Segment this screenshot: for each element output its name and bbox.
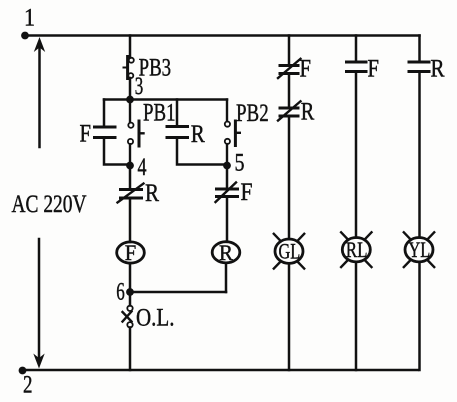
svg-text:4: 4 xyxy=(138,152,147,181)
svg-text:5: 5 xyxy=(235,148,245,177)
wire: RL branch from top rail xyxy=(355,36,358,63)
contact R (NC interlock) xyxy=(118,184,144,203)
AC 220V dimension arrow lower segment xyxy=(33,239,44,369)
wire: coil F to node 6 xyxy=(129,263,132,292)
lamp YL xyxy=(404,232,434,267)
coil R xyxy=(212,240,240,265)
contact F (NC interlock) xyxy=(216,183,238,203)
contact F (NO, RL branch) xyxy=(347,62,367,72)
wire: PB3 to node 3 xyxy=(129,78,132,100)
svg-text:F: F xyxy=(368,54,380,83)
svg-text:6: 6 xyxy=(116,277,125,306)
svg-text:GL: GL xyxy=(278,239,300,264)
svg-text:R: R xyxy=(145,178,159,207)
wire: left leg down to contact F xyxy=(103,100,106,128)
wire: GL branch contact to lamp xyxy=(288,116,291,239)
node 1 junction dot xyxy=(21,32,29,40)
svg-text:O.L.: O.L. xyxy=(136,303,175,332)
wire: node 6 bus to coil R branch xyxy=(130,291,226,294)
contact R (NO, holding contact) xyxy=(167,127,188,138)
svg-text:PB2: PB2 xyxy=(236,98,269,127)
svg-text:F: F xyxy=(125,240,137,265)
pushbutton PB1 (NO) xyxy=(128,100,144,166)
AC 220V dimension arrow upper segment xyxy=(34,37,45,147)
contact F (NC, GL branch) xyxy=(278,59,301,78)
svg-text:YL: YL xyxy=(408,237,430,262)
svg-text:F: F xyxy=(300,54,312,83)
wire: node 6 to overload contact xyxy=(129,292,132,306)
wire: lamp YL to bottom rail xyxy=(418,262,421,370)
pushbutton PB3 (NC) xyxy=(124,57,134,79)
wire: GL branch from top rail xyxy=(288,36,291,66)
pushbutton PB2 (NO) xyxy=(225,100,240,166)
wire: contact R to bottom corner to node 5 xyxy=(177,138,227,165)
contact R (NC, GL branch) xyxy=(278,101,301,120)
wire: lamp RL to bottom rail xyxy=(355,262,358,370)
node 2 junction dot xyxy=(19,367,27,375)
contact F (NO, holding contact) xyxy=(95,127,116,138)
wire: top rail (node 1 to right corner) xyxy=(25,34,420,37)
svg-text:AC 220V: AC 220V xyxy=(12,191,87,218)
svg-text:R: R xyxy=(301,97,315,126)
wire: parallel-group top bus (x 104 to 227 at y 99.5) xyxy=(104,98,227,101)
node 5 junction dot xyxy=(223,162,231,170)
wire: NC contact R to coil F xyxy=(129,198,132,242)
wire: node 4 down to NC contact R xyxy=(129,166,132,190)
wire: right-group left leg down to contact R xyxy=(176,100,179,127)
wire: NC contact F to coil R xyxy=(226,197,229,242)
wire: node 5 down to NC contact F xyxy=(226,166,229,190)
svg-text:PB3: PB3 xyxy=(139,53,172,82)
coil F xyxy=(117,240,145,265)
svg-text:PB1: PB1 xyxy=(143,98,176,127)
svg-text:R: R xyxy=(431,54,445,83)
wire: main branch from top rail to PB3 xyxy=(129,36,132,58)
node 3 junction dot xyxy=(126,96,134,104)
svg-text:1: 1 xyxy=(24,3,35,32)
wire: lamp GL to bottom rail xyxy=(288,263,291,370)
wire: bottom rail (node 2 to right) xyxy=(22,369,418,372)
svg-text:R: R xyxy=(191,119,205,148)
wire: between GL branch contacts xyxy=(288,74,291,109)
wire: YL branch from top rail corner xyxy=(418,36,421,63)
node 6 junction dot xyxy=(126,288,134,296)
node 4 junction dot xyxy=(126,162,134,170)
svg-text:3: 3 xyxy=(135,71,144,100)
wire: RL branch contact to lamp xyxy=(355,72,358,238)
wire: coil R down to node 6 bus xyxy=(225,263,228,292)
contact R (NO, YL branch) xyxy=(409,62,429,72)
svg-text:2: 2 xyxy=(23,370,33,399)
wire: contact F to bottom corner and to node 4 xyxy=(104,138,130,165)
svg-text:F: F xyxy=(241,177,253,206)
svg-text:F: F xyxy=(80,119,92,148)
overload relay contact O.L. xyxy=(123,306,133,328)
wire: O.L. to bottom rail xyxy=(129,327,132,370)
wire: YL branch contact to lamp xyxy=(418,72,421,238)
lamp RL xyxy=(341,232,371,267)
svg-text:RL: RL xyxy=(346,237,368,262)
lamp GL xyxy=(274,234,304,269)
svg-text:R: R xyxy=(219,240,233,265)
